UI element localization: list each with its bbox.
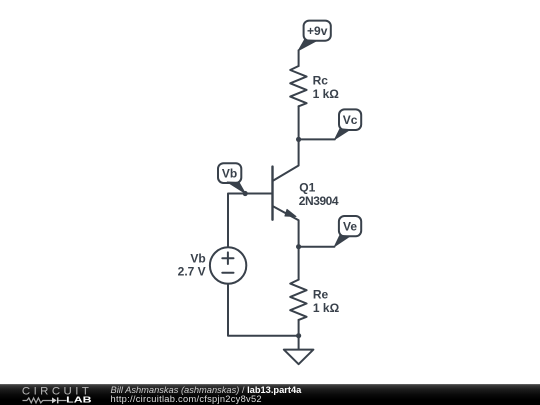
svg-text:Ve: Ve xyxy=(343,220,357,234)
svg-text:1 kΩ: 1 kΩ xyxy=(313,301,340,315)
wire emitter node to Ve flag xyxy=(299,246,335,248)
wire Rc to collector node xyxy=(298,106,300,139)
junction dot ground node xyxy=(296,333,301,338)
node Vc flag xyxy=(335,109,362,139)
transistor Q1 xyxy=(245,139,339,246)
logo resistor squiggle xyxy=(23,398,53,403)
node Vc junction xyxy=(296,137,301,142)
node Ve junction xyxy=(296,244,301,249)
resistor Re xyxy=(290,280,339,320)
attribution text xyxy=(111,386,302,404)
node Vb flag xyxy=(218,163,245,193)
collector lead xyxy=(273,139,299,181)
svg-text:2.7 V: 2.7 V xyxy=(178,265,206,279)
svg-text:LAB: LAB xyxy=(66,394,91,404)
voltage source V1 Vb 2.7 V xyxy=(178,247,247,283)
base bar xyxy=(271,167,273,220)
wire emitter node to Re xyxy=(298,247,300,280)
wire supply to Rc xyxy=(298,50,300,66)
wire collector node to Vc flag xyxy=(299,138,335,140)
wire base node to source branch xyxy=(228,194,245,248)
emitter lead xyxy=(273,206,299,247)
footer bar xyxy=(0,384,540,405)
svg-text:Q1: Q1 xyxy=(299,180,315,194)
CircuitLab logo xyxy=(0,384,100,405)
emitter arrow xyxy=(285,209,296,216)
node +9v flag xyxy=(298,21,331,51)
svg-text:2N3904: 2N3904 xyxy=(299,194,339,208)
svg-text:Rc: Rc xyxy=(313,73,329,87)
junction dot base node xyxy=(243,191,248,196)
node Ve flag xyxy=(334,216,361,247)
svg-text:+9v: +9v xyxy=(307,24,328,38)
svg-text:Re: Re xyxy=(313,288,329,302)
ground xyxy=(284,336,314,365)
logo diode xyxy=(52,397,57,403)
resistor Rc xyxy=(290,66,339,106)
svg-text:Vb: Vb xyxy=(190,251,205,265)
svg-text:1 kΩ: 1 kΩ xyxy=(313,87,340,101)
svg-text:Vb: Vb xyxy=(222,167,237,181)
svg-text:Vc: Vc xyxy=(343,113,358,127)
base lead xyxy=(245,193,272,195)
wire Re to ground node xyxy=(298,320,300,336)
wire source to bottom rail xyxy=(228,284,299,336)
